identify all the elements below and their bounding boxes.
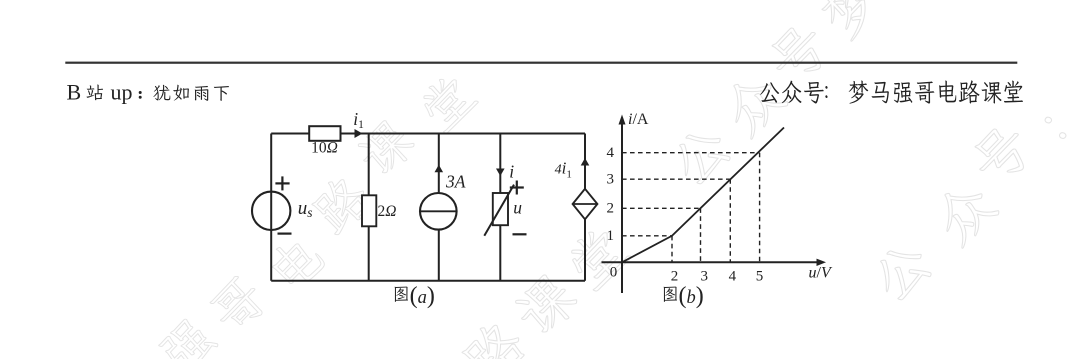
svg-text:4: 4: [607, 145, 615, 161]
svg-text:u/V: u/V: [809, 264, 833, 281]
svg-text:2: 2: [607, 201, 615, 217]
svg-text:u: u: [513, 197, 522, 217]
svg-text:i: i: [509, 162, 514, 182]
svg-text:i/A: i/A: [628, 111, 649, 128]
svg-text:4: 4: [729, 269, 737, 285]
svg-text:B: B: [67, 80, 82, 105]
svg-text:5: 5: [756, 269, 764, 285]
svg-text:2: 2: [671, 269, 679, 285]
svg-text:10Ω: 10Ω: [311, 140, 338, 157]
svg-text:3A: 3A: [445, 171, 466, 191]
svg-text:3: 3: [607, 172, 615, 188]
svg-text:2Ω: 2Ω: [378, 203, 397, 220]
svg-text:up: up: [111, 80, 133, 105]
svg-text:0: 0: [610, 264, 618, 280]
svg-text:1: 1: [607, 228, 615, 244]
